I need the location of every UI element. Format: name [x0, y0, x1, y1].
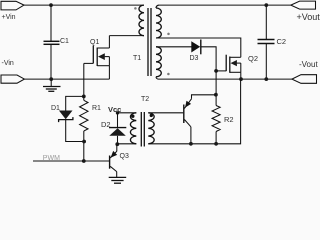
transformer T2 secondary winding — [148, 113, 154, 144]
wire T2 secondary top to PNP base — [148, 112, 183, 114]
node T1 primary phase dot — [134, 7, 137, 10]
node T2 secondary phase dot — [150, 114, 153, 117]
wire PWM line — [33, 160, 110, 162]
wire -Vin rail — [24, 78, 109, 80]
node T1 secondary lower phase dot — [167, 73, 170, 76]
wire T1 upper secondary bottom to Q2 drain — [156, 38, 241, 57]
label Q1 — [90, 39, 99, 46]
node Vcc — [116, 111, 119, 114]
wire D2 anode to node — [117, 136, 119, 144]
node T1 secondary upper phase dot — [167, 33, 170, 36]
label D3 — [190, 55, 199, 62]
wire Q1 drain lead — [108, 36, 110, 48]
wire C2 top lead — [265, 5, 267, 39]
label D1 — [51, 105, 60, 112]
transformer T1 primary winding — [139, 5, 144, 36]
transformer T1 secondary lower winding — [156, 47, 161, 77]
node Q2 source rail junction — [239, 77, 243, 81]
wire node to T2 primary bottom — [117, 143, 136, 145]
connector -Vin — [1, 75, 24, 83]
node T2 primary phase dot — [131, 115, 134, 118]
wire R2 top lead — [215, 105, 217, 107]
ground primary — [43, 79, 61, 91]
wire R1 top lead — [83, 96, 85, 100]
diode D1 zener — [59, 111, 73, 123]
node emitter junction — [214, 93, 218, 97]
wire C1 top lead — [50, 5, 52, 41]
transistor Q3 PNP — [110, 144, 118, 177]
label T2 — [141, 96, 149, 103]
node junction C2 bottom — [264, 77, 268, 81]
wire Vcc to T2 primary top — [118, 112, 137, 114]
label +Vout — [297, 13, 320, 22]
label -Vout — [299, 61, 318, 69]
node PWM junction — [82, 159, 86, 163]
wire +Vin rail top left — [24, 4, 144, 6]
wire Q1 drain to T1 — [109, 35, 144, 37]
label T1 — [133, 55, 141, 62]
node gate riser D1 R1 junction — [82, 95, 86, 99]
wire D3 cathode to node — [201, 47, 216, 71]
transformer T1 core — [148, 8, 151, 76]
label PWM — [43, 155, 60, 162]
capacitor C1 — [44, 41, 60, 44]
transistor Q1 N-MOSFET — [93, 46, 109, 67]
label -Vin — [2, 60, 14, 67]
capacitor C2 — [258, 40, 275, 44]
wire C2 bottom lead — [265, 44, 267, 80]
label Q3 — [120, 153, 129, 160]
label C2 — [277, 38, 287, 46]
wire R2 bottom lead — [215, 132, 217, 144]
node junction -Vin C1 ground — [49, 77, 53, 81]
wire Q1 source to rail — [108, 66, 110, 79]
wire Q1 gate riser — [83, 63, 85, 96]
wire R1 bottom lead — [83, 131, 85, 161]
wire T1 lower secondary bottom to -Vout rail — [156, 77, 292, 79]
transformer T2 primary winding — [130, 113, 136, 144]
wire C1 bottom lead — [50, 44, 52, 79]
wire D1 cathode down and to R1 bottom — [66, 120, 84, 142]
label C1 — [60, 38, 69, 45]
diode D3 — [191, 40, 201, 55]
node junction top C1 — [49, 3, 53, 7]
wire Q1 gate lead — [84, 62, 94, 64]
node junction C2 top — [264, 3, 268, 7]
wire gate node to Q2 gate — [216, 70, 226, 72]
resistor R2 — [212, 106, 220, 132]
transistor Q2 N-MOSFET — [226, 55, 241, 73]
connector +Vin — [1, 1, 24, 10]
wire T2 secondary bottom — [148, 79, 240, 144]
node D1 R1 bottom junction — [82, 140, 86, 144]
label R2 — [224, 116, 234, 124]
node R2 bottom junction — [214, 142, 218, 146]
wire top rail right — [159, 4, 291, 6]
node D2 T2 Q3 junction — [115, 142, 119, 146]
node D3 gate junction — [214, 69, 218, 73]
connector -Vout — [292, 75, 317, 84]
wire node vertical crossing rail — [215, 71, 217, 106]
label +Vin — [2, 14, 16, 21]
transformer T2 core — [141, 112, 144, 147]
wire node to D1 anode — [66, 96, 84, 110]
diode D2 — [109, 128, 126, 136]
node PNP collector junction — [189, 142, 193, 146]
label R1 — [92, 105, 101, 112]
resistor R1 — [80, 100, 88, 131]
ground Q3 emitter — [109, 177, 127, 183]
transistor PNP right — [184, 95, 216, 144]
label D2 — [101, 121, 111, 129]
transformer T1 secondary upper winding — [156, 5, 161, 38]
label Vcc — [108, 106, 121, 114]
wire Vcc to D2 cathode — [117, 113, 119, 128]
wire Q2 source to rail — [240, 72, 242, 79]
label Q2 — [248, 55, 258, 63]
connector +Vout — [291, 1, 316, 9]
wire T1 lower secondary top to D3 — [156, 46, 192, 48]
